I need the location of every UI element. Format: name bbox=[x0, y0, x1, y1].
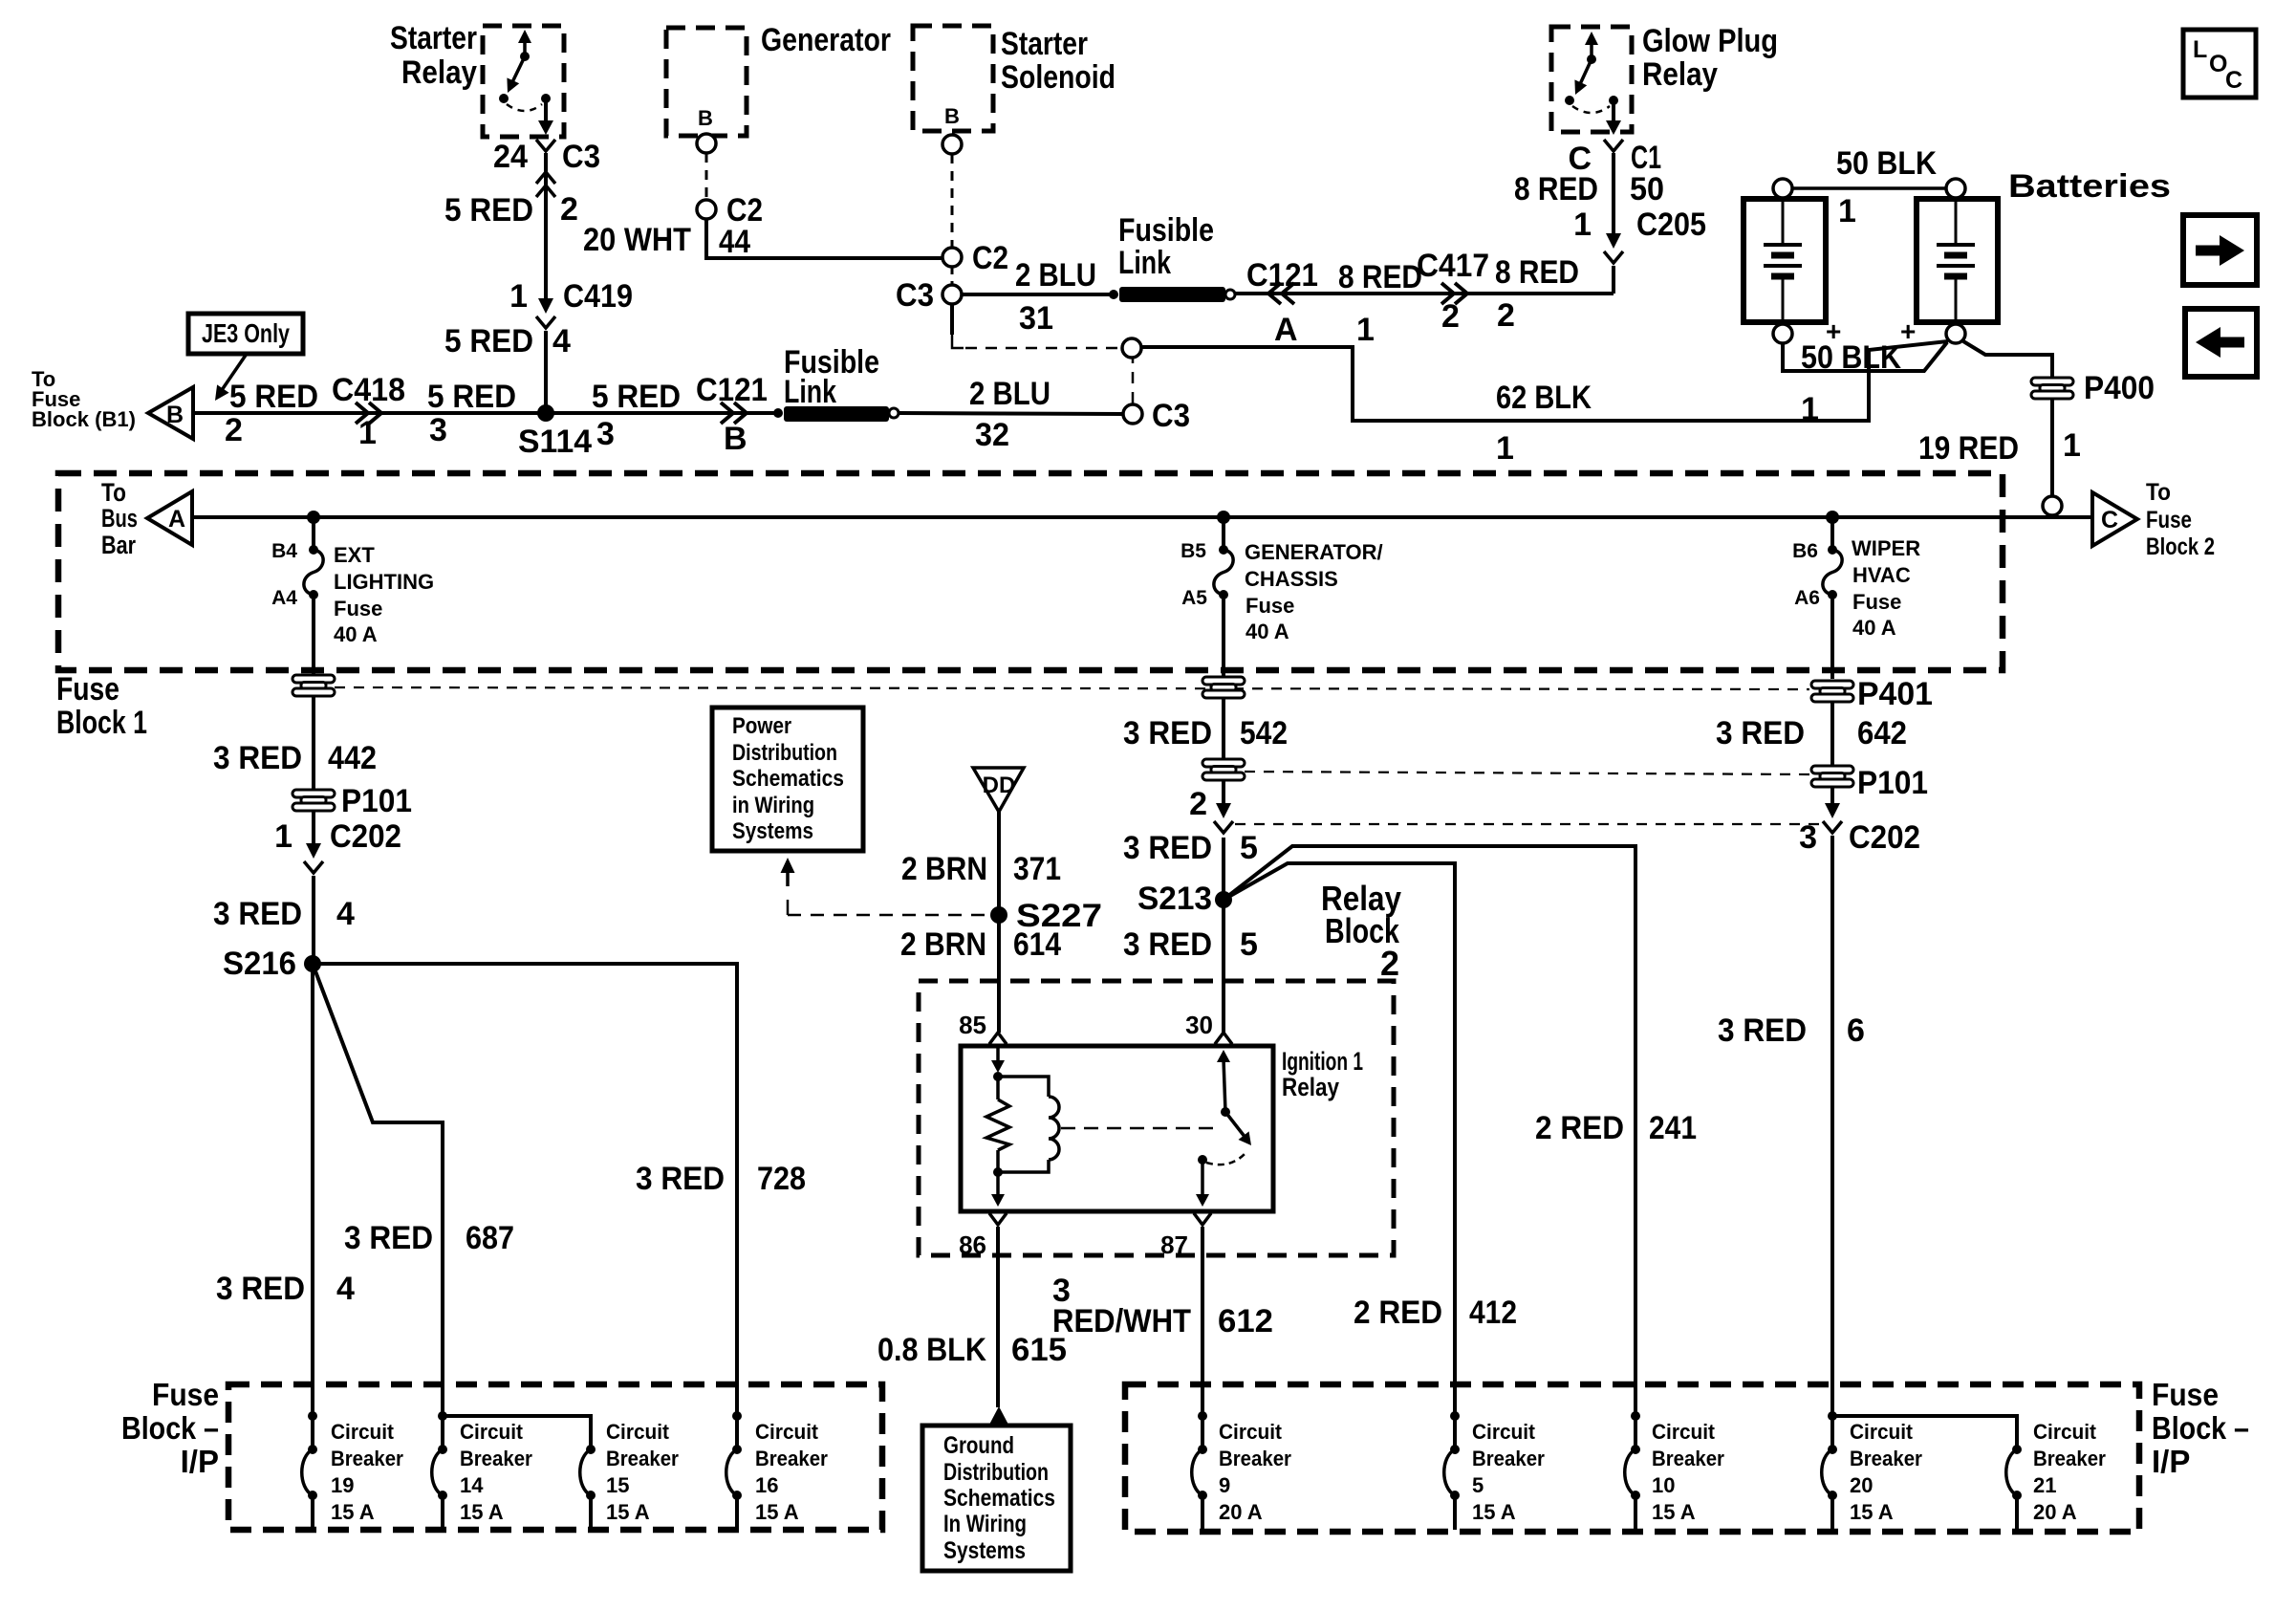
svg-text:in Wiring: in Wiring bbox=[732, 793, 814, 818]
circuit breaker 15 bbox=[586, 1445, 596, 1454]
svg-text:3 RED: 3 RED bbox=[1716, 715, 1805, 751]
svg-text:To: To bbox=[101, 478, 126, 507]
svg-text:62 BLK: 62 BLK bbox=[1496, 380, 1592, 416]
svg-text:3: 3 bbox=[429, 412, 447, 448]
svg-text:412: 412 bbox=[1469, 1295, 1517, 1331]
svg-text:542: 542 bbox=[1240, 715, 1288, 751]
svg-text:Breaker: Breaker bbox=[2033, 1447, 2106, 1470]
terminal 86 bbox=[989, 1213, 1007, 1225]
bus bar wire bbox=[192, 515, 2092, 519]
svg-text:C418: C418 bbox=[332, 372, 405, 408]
svg-text:40 A: 40 A bbox=[1852, 616, 1896, 640]
svg-text:Circuit: Circuit bbox=[2033, 1420, 2097, 1444]
bus entry ring bbox=[2043, 496, 2062, 515]
svg-text:615: 615 bbox=[1011, 1332, 1067, 1368]
svg-text:1: 1 bbox=[2063, 427, 2081, 464]
junction ring bbox=[1122, 338, 1141, 358]
wire 2 BLU 31 bbox=[962, 293, 1114, 296]
svg-text:A: A bbox=[168, 506, 185, 533]
generator terminal B bbox=[697, 134, 716, 153]
label To Fuse Block 2 bbox=[2146, 479, 2215, 560]
svg-text:10: 10 bbox=[1652, 1473, 1675, 1497]
svg-text:Systems: Systems bbox=[732, 818, 813, 844]
grommet P401 bbox=[1811, 681, 1853, 702]
fuse block IP left dashed box bbox=[228, 1384, 882, 1530]
grommet P101 left bbox=[292, 790, 335, 811]
svg-text:Breaker: Breaker bbox=[755, 1447, 828, 1470]
svg-text:P101: P101 bbox=[341, 783, 412, 819]
svg-text:241: 241 bbox=[1649, 1110, 1697, 1146]
svg-text:2: 2 bbox=[560, 191, 578, 228]
svg-text:Circuit: Circuit bbox=[1219, 1420, 1283, 1444]
glow plug pin chevron bbox=[1604, 140, 1623, 151]
svg-text:3: 3 bbox=[1799, 819, 1817, 856]
grommet left bbox=[292, 675, 335, 696]
svg-text:4: 4 bbox=[336, 896, 355, 932]
solenoid terminal B bbox=[942, 135, 962, 154]
dashed link to junction bbox=[1132, 358, 1135, 403]
svg-text:19: 19 bbox=[331, 1473, 354, 1497]
svg-text:A5: A5 bbox=[1181, 587, 1207, 609]
terminal 87 bbox=[1194, 1213, 1211, 1225]
svg-text:15 A: 15 A bbox=[460, 1500, 504, 1524]
wire S216 to breaker 16 bbox=[313, 964, 737, 1416]
svg-text:To: To bbox=[2146, 479, 2171, 506]
circuit breaker 14 bbox=[438, 1411, 447, 1421]
svg-text:371: 371 bbox=[1013, 851, 1061, 887]
ground reference triangle DD bbox=[973, 768, 1024, 812]
label Fuse Block IP left bbox=[121, 1377, 219, 1479]
circuit breaker 19 bbox=[308, 1411, 317, 1421]
svg-text:HVAC: HVAC bbox=[1852, 563, 1911, 587]
svg-text:C121: C121 bbox=[696, 372, 768, 408]
svg-text:Relay: Relay bbox=[1642, 56, 1718, 93]
svg-text:Fusible: Fusible bbox=[1118, 212, 1214, 249]
svg-text:Relay: Relay bbox=[401, 54, 477, 91]
svg-text:Fuse: Fuse bbox=[334, 597, 382, 620]
svg-text:50 BLK: 50 BLK bbox=[1801, 339, 1901, 376]
svg-text:44: 44 bbox=[719, 224, 750, 260]
off-page connector A bbox=[147, 491, 192, 545]
svg-text:8 RED: 8 RED bbox=[1338, 259, 1422, 295]
power distribution callout box bbox=[712, 708, 863, 851]
svg-text:2 BRN: 2 BRN bbox=[900, 926, 986, 963]
svg-text:9: 9 bbox=[1219, 1473, 1230, 1497]
wire 3 RED 6 bbox=[1830, 836, 1834, 1416]
connector C3 pin 24 bbox=[544, 153, 548, 193]
glow plug relay switch bbox=[1590, 40, 1593, 59]
svg-text:C202: C202 bbox=[330, 818, 401, 855]
grommet P400 bbox=[2031, 378, 2073, 399]
svg-text:Breaker: Breaker bbox=[1652, 1447, 1724, 1470]
circuit breaker 10 bbox=[1631, 1411, 1640, 1421]
off-page connector C bbox=[2092, 492, 2137, 546]
svg-text:5 RED: 5 RED bbox=[592, 379, 681, 415]
svg-text:Ground: Ground bbox=[943, 1432, 1014, 1459]
grommet P101 right bbox=[1811, 766, 1853, 787]
svg-text:2 BRN: 2 BRN bbox=[901, 851, 987, 887]
svg-text:C: C bbox=[2101, 507, 2118, 533]
svg-text:C121: C121 bbox=[1246, 257, 1318, 294]
svg-text:1: 1 bbox=[509, 278, 528, 315]
battery bottom terminals bbox=[1773, 324, 1792, 343]
svg-text:C419: C419 bbox=[563, 278, 633, 315]
svg-text:15 A: 15 A bbox=[1472, 1500, 1516, 1524]
svg-text:EXT: EXT bbox=[334, 543, 375, 567]
svg-text:JE3 Only: JE3 Only bbox=[202, 318, 290, 348]
svg-text:1: 1 bbox=[274, 818, 292, 855]
wire 8 RED 50 bbox=[1612, 153, 1615, 237]
wire 8 RED elbow bbox=[1612, 266, 1615, 294]
svg-text:86: 86 bbox=[959, 1230, 986, 1259]
svg-text:3 RED: 3 RED bbox=[1123, 926, 1212, 963]
svg-text:3 RED: 3 RED bbox=[344, 1220, 433, 1256]
svg-text:20: 20 bbox=[1850, 1473, 1873, 1497]
svg-text:8 RED: 8 RED bbox=[1495, 254, 1579, 291]
svg-text:S114: S114 bbox=[518, 424, 592, 460]
svg-text:5: 5 bbox=[1240, 830, 1258, 866]
circuit breaker 21 bbox=[2012, 1445, 2022, 1454]
connector C2 ring sol bbox=[942, 248, 962, 267]
svg-text:Block 2: Block 2 bbox=[2146, 533, 2215, 560]
ignition 1 relay box bbox=[961, 1046, 1273, 1211]
relay coil circuit bbox=[996, 1046, 1000, 1063]
svg-text:Starter: Starter bbox=[1001, 26, 1088, 62]
off-page connector B bbox=[148, 387, 193, 439]
svg-text:Fuse: Fuse bbox=[1245, 594, 1294, 618]
svg-text:Schematics: Schematics bbox=[943, 1485, 1055, 1512]
svg-text:3: 3 bbox=[596, 416, 615, 452]
svg-text:Power: Power bbox=[732, 713, 791, 739]
ground distribution callout box bbox=[922, 1426, 1071, 1571]
label Fuse Block IP right bbox=[2152, 1377, 2249, 1479]
connector C202 pin 3 bbox=[1830, 787, 1834, 805]
svg-text:30: 30 bbox=[1185, 1011, 1213, 1039]
svg-text:642: 642 bbox=[1857, 715, 1907, 751]
svg-text:Circuit: Circuit bbox=[755, 1420, 819, 1444]
svg-text:19 RED: 19 RED bbox=[1918, 430, 2019, 467]
svg-text:3 RED: 3 RED bbox=[213, 896, 302, 932]
svg-text:Relay: Relay bbox=[1282, 1073, 1339, 1101]
svg-text:Bus: Bus bbox=[101, 504, 138, 533]
svg-text:5: 5 bbox=[1472, 1473, 1484, 1497]
svg-text:2 RED: 2 RED bbox=[1354, 1295, 1442, 1331]
connector C205 pin 1 bbox=[1612, 233, 1615, 239]
JE3 Only callout box bbox=[188, 314, 303, 354]
svg-text:40 A: 40 A bbox=[334, 622, 378, 646]
starter solenoid box bbox=[913, 26, 993, 131]
svg-text:15 A: 15 A bbox=[606, 1500, 650, 1524]
svg-text:4: 4 bbox=[552, 323, 571, 359]
circuit breaker 9 bbox=[1198, 1411, 1207, 1421]
dashed C2 to C3 bbox=[951, 267, 954, 285]
terminal 30 bbox=[1222, 838, 1225, 1033]
svg-text:2: 2 bbox=[1441, 298, 1460, 335]
svg-text:50: 50 bbox=[1630, 171, 1664, 207]
svg-text:C3: C3 bbox=[562, 139, 600, 175]
wire 0.8 BLK 615 bbox=[996, 1227, 1000, 1407]
svg-text:A: A bbox=[1274, 312, 1298, 348]
splice S216 bbox=[304, 955, 321, 972]
svg-text:Fuse: Fuse bbox=[2152, 1377, 2219, 1412]
svg-text:Systems: Systems bbox=[943, 1537, 1026, 1564]
starter relay switch bbox=[523, 38, 527, 56]
jumper 14 to 15 bbox=[443, 1416, 591, 1449]
wire 3 RED 4 to breaker 19 bbox=[311, 964, 314, 1416]
starter relay pin chevron bbox=[536, 140, 555, 151]
svg-text:B: B bbox=[724, 421, 747, 457]
wire 5 RED 2 horizontal bbox=[193, 411, 778, 415]
wire 3 RED 642 bbox=[1830, 702, 1834, 766]
wire 5 RED 4 bbox=[544, 331, 548, 413]
svg-text:15: 15 bbox=[606, 1473, 629, 1497]
svg-text:In Wiring: In Wiring bbox=[943, 1511, 1027, 1537]
svg-text:C205: C205 bbox=[1636, 207, 1706, 243]
fuse block IP right dashed box bbox=[1125, 1384, 2139, 1532]
svg-text:1: 1 bbox=[1573, 207, 1592, 243]
svg-text:15 A: 15 A bbox=[331, 1500, 375, 1524]
svg-text:2: 2 bbox=[225, 412, 243, 448]
svg-text:5 RED: 5 RED bbox=[427, 379, 516, 415]
svg-text:Circuit: Circuit bbox=[1850, 1420, 1914, 1444]
dashed pigtail 2 bbox=[951, 154, 954, 247]
dashed pigtail bbox=[705, 153, 708, 200]
svg-text:C202: C202 bbox=[1849, 819, 1920, 856]
wire 2 BLU 32 bbox=[899, 413, 1123, 414]
svg-text:Schematics: Schematics bbox=[732, 766, 844, 792]
svg-text:A4: A4 bbox=[271, 587, 297, 609]
svg-text:0.8 BLK: 0.8 BLK bbox=[877, 1332, 986, 1368]
fuse B5 A5 GENERATOR CHASSIS 40A bbox=[1222, 517, 1225, 550]
svg-text:Circuit: Circuit bbox=[460, 1420, 524, 1444]
svg-text:87: 87 bbox=[1160, 1230, 1188, 1259]
connector C3 ring sol bbox=[942, 285, 962, 304]
svg-text:Fuse: Fuse bbox=[1852, 590, 1901, 614]
wire 8 RED to glow plug bbox=[1235, 292, 1614, 295]
svg-text:15 A: 15 A bbox=[1652, 1500, 1696, 1524]
svg-text:C3: C3 bbox=[1152, 398, 1190, 434]
svg-text:3 RED: 3 RED bbox=[1123, 715, 1212, 751]
wire 3 RED WHT 612 bbox=[1201, 1227, 1204, 1416]
svg-text:P400: P400 bbox=[2084, 370, 2155, 406]
svg-text:RED/WHT: RED/WHT bbox=[1052, 1303, 1191, 1339]
svg-text:2 BLU: 2 BLU bbox=[969, 376, 1051, 412]
svg-text:5 RED: 5 RED bbox=[444, 192, 533, 229]
svg-text:85: 85 bbox=[959, 1011, 986, 1039]
svg-text:Fuse: Fuse bbox=[56, 671, 119, 708]
svg-text:Distribution: Distribution bbox=[732, 740, 837, 766]
wire 50 BLK 1 top bbox=[1792, 186, 1946, 190]
svg-text:Circuit: Circuit bbox=[1472, 1420, 1536, 1444]
wire 3 RED 4 bbox=[312, 876, 315, 964]
svg-text:L: L bbox=[2193, 36, 2207, 63]
jumper 20 to 21 bbox=[1832, 1416, 2017, 1449]
svg-text:Solenoid: Solenoid bbox=[1001, 59, 1116, 96]
svg-text:15 A: 15 A bbox=[1850, 1500, 1894, 1524]
label To Bus Bar bbox=[101, 478, 138, 559]
svg-text:1: 1 bbox=[1838, 193, 1856, 229]
wire 2 RED 412 branch bbox=[1224, 863, 1455, 1416]
battery 1 symbol bbox=[1782, 199, 1785, 244]
dashed link to S227 bbox=[787, 900, 790, 915]
svg-text:15 A: 15 A bbox=[755, 1500, 799, 1524]
svg-text:3 RED: 3 RED bbox=[216, 1271, 305, 1307]
connector C202 pin 1 bbox=[312, 811, 315, 845]
fuse B6 A6 WIPER HVAC 40A bbox=[1830, 517, 1834, 550]
wire 62 BLK 1 bbox=[1141, 341, 1948, 421]
svg-text:Breaker: Breaker bbox=[1472, 1447, 1545, 1470]
thin dashed P101 line bbox=[1245, 772, 1810, 774]
svg-text:Fuse: Fuse bbox=[152, 1377, 219, 1412]
grommet P101 mid bbox=[1202, 759, 1245, 780]
wire 19 RED 1 bbox=[1963, 341, 2052, 378]
svg-text:2: 2 bbox=[1380, 944, 1399, 983]
svg-text:B6: B6 bbox=[1792, 540, 1818, 562]
svg-text:CHASSIS: CHASSIS bbox=[1245, 567, 1338, 591]
svg-text:Link: Link bbox=[784, 374, 836, 410]
thin dashed C202 line bbox=[1235, 823, 1819, 825]
generator box bbox=[666, 28, 747, 136]
svg-text:442: 442 bbox=[328, 740, 377, 776]
relay switch circuit bbox=[1224, 1059, 1225, 1112]
svg-text:DD: DD bbox=[983, 773, 1016, 798]
svg-text:728: 728 bbox=[757, 1161, 806, 1197]
connector C3 ring bbox=[1123, 404, 1142, 424]
svg-text:5: 5 bbox=[1240, 926, 1258, 963]
svg-text:3 RED: 3 RED bbox=[636, 1161, 725, 1197]
svg-text:C417: C417 bbox=[1417, 248, 1489, 284]
svg-text:3 RED: 3 RED bbox=[1123, 830, 1212, 866]
relay coil dashed link bbox=[1061, 1127, 1214, 1130]
svg-text:P401: P401 bbox=[1857, 676, 1933, 712]
svg-text:24: 24 bbox=[493, 139, 528, 175]
svg-text:21: 21 bbox=[2033, 1473, 2056, 1497]
svg-text:C2: C2 bbox=[972, 240, 1008, 276]
svg-text:LIGHTING: LIGHTING bbox=[334, 570, 434, 594]
wire 3 RED 542 bbox=[1222, 698, 1225, 759]
arrow right box bbox=[2183, 215, 2257, 285]
grommet mid bbox=[1202, 677, 1245, 698]
svg-text:S216: S216 bbox=[223, 946, 296, 982]
wire 3 RED 442 bbox=[312, 696, 315, 790]
svg-text:3 RED: 3 RED bbox=[213, 740, 302, 776]
svg-text:Bar: Bar bbox=[101, 531, 136, 559]
svg-text:50 BLK: 50 BLK bbox=[1836, 145, 1937, 182]
circuit breaker 20 bbox=[1828, 1411, 1837, 1421]
starter relay box bbox=[483, 26, 564, 137]
svg-text:3 RED: 3 RED bbox=[1718, 1012, 1807, 1049]
splice S213 bbox=[1215, 891, 1232, 908]
svg-text:1: 1 bbox=[358, 415, 377, 451]
ground arrow bbox=[990, 1406, 1008, 1424]
splice S227 bbox=[990, 906, 1007, 924]
relay block 2 dashed box bbox=[919, 981, 1394, 1255]
wire S216 to breaker 14 bbox=[313, 964, 443, 1416]
svg-text:2: 2 bbox=[1189, 786, 1207, 822]
svg-text:Glow Plug: Glow Plug bbox=[1642, 23, 1778, 59]
svg-text:5 RED: 5 RED bbox=[444, 323, 533, 359]
svg-text:Circuit: Circuit bbox=[1652, 1420, 1716, 1444]
svg-text:20 A: 20 A bbox=[2033, 1500, 2077, 1524]
fuse block 1 dashed box bbox=[58, 473, 2003, 670]
svg-text:B: B bbox=[698, 106, 713, 130]
svg-text:Block (B1): Block (B1) bbox=[32, 407, 136, 431]
svg-text:20 A: 20 A bbox=[1219, 1500, 1263, 1524]
svg-text:Block –: Block – bbox=[2152, 1410, 2249, 1446]
wire 50 BLK 1 bottom bbox=[1783, 342, 1947, 371]
svg-text:P101: P101 bbox=[1857, 765, 1928, 801]
connector C202 pin 2 bbox=[1222, 780, 1225, 805]
svg-text:+: + bbox=[1900, 316, 1916, 346]
circuit breaker 16 bbox=[732, 1411, 742, 1421]
svg-text:Breaker: Breaker bbox=[1219, 1447, 1291, 1470]
connector C419 pin 1 bbox=[544, 298, 548, 304]
svg-text:40 A: 40 A bbox=[1245, 620, 1289, 643]
fuse B4 A4 EXT LIGHTING 40A bbox=[312, 517, 315, 550]
svg-text:S213: S213 bbox=[1137, 881, 1212, 917]
svg-text:Block 1: Block 1 bbox=[56, 705, 147, 741]
arrow left box bbox=[2185, 309, 2257, 377]
dashed elbow to junction bbox=[950, 304, 954, 335]
battery 1 box bbox=[1744, 199, 1826, 322]
svg-text:Breaker: Breaker bbox=[1850, 1447, 1922, 1470]
svg-text:6: 6 bbox=[1847, 1012, 1865, 1049]
svg-text:2 RED: 2 RED bbox=[1535, 1110, 1624, 1146]
svg-text:32: 32 bbox=[975, 417, 1009, 453]
svg-text:2: 2 bbox=[1497, 297, 1515, 334]
svg-text:Generator: Generator bbox=[761, 22, 891, 58]
svg-text:Fuse: Fuse bbox=[2146, 507, 2192, 533]
svg-text:Block –: Block – bbox=[121, 1410, 219, 1446]
svg-text:612: 612 bbox=[1218, 1303, 1273, 1339]
svg-text:Circuit: Circuit bbox=[606, 1420, 670, 1444]
svg-text:Breaker: Breaker bbox=[460, 1447, 532, 1470]
svg-text:I/P: I/P bbox=[2152, 1444, 2190, 1479]
wire 5 RED 2 bbox=[544, 191, 548, 306]
power distribution arrow bbox=[786, 867, 790, 886]
svg-text:5 RED: 5 RED bbox=[229, 379, 318, 415]
svg-text:C3: C3 bbox=[896, 277, 934, 314]
circuit breaker 5 bbox=[1450, 1411, 1460, 1421]
svg-text:Link: Link bbox=[1118, 245, 1171, 281]
bus junction dots bbox=[307, 511, 320, 524]
glow plug relay box bbox=[1551, 27, 1632, 132]
battery 2 symbol bbox=[1955, 199, 1958, 244]
svg-text:1: 1 bbox=[1496, 430, 1514, 467]
svg-text:Breaker: Breaker bbox=[331, 1447, 403, 1470]
thin dashed grommet line bbox=[335, 687, 1809, 689]
svg-text:Starter: Starter bbox=[390, 20, 477, 56]
wire 2 BRN 371 bbox=[997, 812, 1001, 1033]
svg-text:Breaker: Breaker bbox=[606, 1447, 679, 1470]
svg-text:B4: B4 bbox=[271, 540, 297, 562]
svg-text:4: 4 bbox=[336, 1271, 355, 1307]
svg-text:GENERATOR/: GENERATOR/ bbox=[1245, 540, 1383, 564]
svg-text:WIPER: WIPER bbox=[1852, 536, 1920, 560]
svg-text:16: 16 bbox=[755, 1473, 778, 1497]
svg-text:2 BLU: 2 BLU bbox=[1015, 257, 1096, 294]
connector C2 ring gen bbox=[697, 200, 716, 219]
svg-text:B: B bbox=[166, 402, 184, 428]
splice S114 bbox=[537, 404, 554, 422]
JE3 arrow bbox=[222, 354, 247, 390]
wire 2 RED 241 branch bbox=[1224, 846, 1635, 1416]
svg-text:687: 687 bbox=[466, 1220, 514, 1256]
svg-text:Ignition 1: Ignition 1 bbox=[1282, 1047, 1363, 1076]
svg-text:A6: A6 bbox=[1794, 587, 1820, 609]
svg-text:31: 31 bbox=[1019, 300, 1053, 337]
svg-text:614: 614 bbox=[1013, 926, 1061, 963]
